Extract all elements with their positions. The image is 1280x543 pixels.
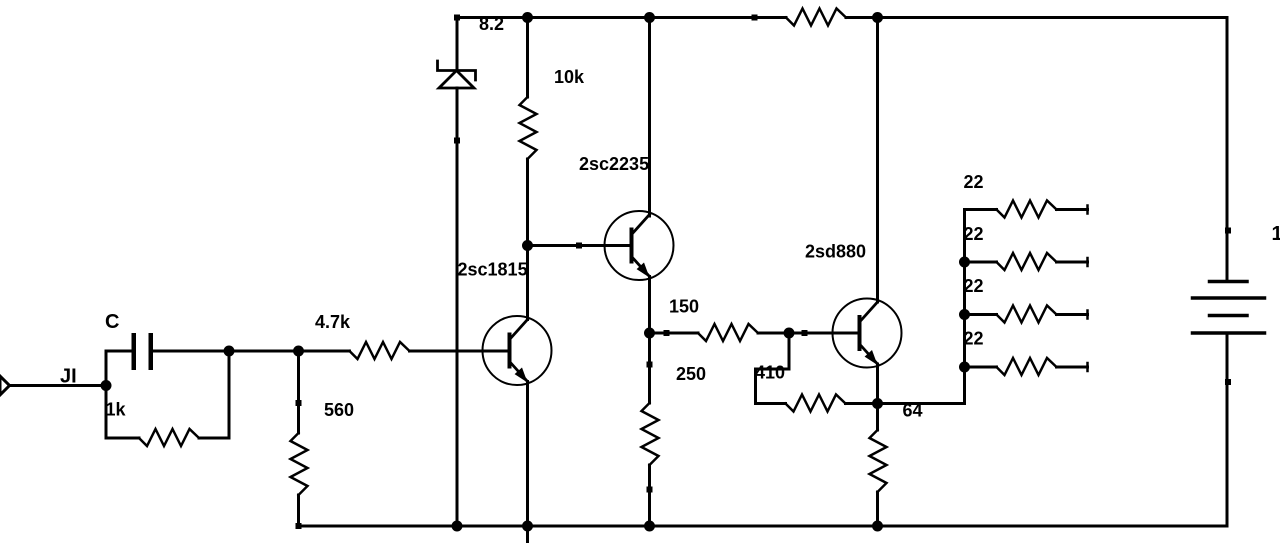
pin dot bottom rail left end (296, 523, 302, 529)
pin tick 22 row2 (1086, 258, 1089, 266)
pin dot zener bottom (454, 138, 460, 144)
node bottom rail 1815 emitter (522, 521, 533, 532)
pin dot battery bottom lead (1225, 379, 1231, 385)
wire 410 right lead to emitter node (846, 402, 878, 405)
wire 10k bottom lead (526, 159, 529, 246)
wire 22 row2 right lead (1057, 261, 1088, 264)
capacitor C plates (132, 333, 154, 370)
wire cap node to 4.7k node (229, 350, 299, 353)
wire 560 branch down (297, 351, 300, 433)
pin dot 2235 base wire (576, 243, 582, 249)
wire 4.7k left lead (299, 350, 350, 353)
wire 150 left lead (650, 332, 699, 335)
resistor 560 (291, 433, 308, 495)
wire J1 input lead (10, 384, 107, 387)
svg-text:10k: 10k (554, 67, 585, 87)
svg-text:22: 22 (964, 224, 984, 244)
wire battery bottom drop (1226, 333, 1229, 526)
wire 250 branch down (648, 333, 651, 403)
svg-text:560: 560 (324, 400, 354, 420)
wire 22 row1 right lead (1057, 208, 1088, 211)
pin dot top rail mid (752, 15, 758, 21)
node 880 emitter / 64 / bus (872, 398, 883, 409)
wire 64 resistor top lead (876, 404, 879, 431)
wire 10k top lead (526, 18, 529, 98)
svg-text:150: 150 (669, 297, 699, 317)
wire 22 row4 left lead (965, 366, 997, 369)
wire 410 loop from base node (756, 333, 790, 404)
wire 1k loop up (228, 351, 231, 438)
wire 22 row3 right lead (1057, 313, 1088, 316)
resistor 64 (870, 430, 887, 492)
zener diode D1 8.2V (438, 61, 476, 88)
pin dot 880 base wire (802, 330, 808, 336)
wire 2sd880 emitter vertical (876, 364, 879, 404)
svg-text:22: 22 (964, 276, 984, 296)
node 2235 emitter / 150 / 250 (644, 328, 655, 339)
wire 2sc2235 emitter vertical (648, 277, 651, 334)
wire cap branch up (105, 351, 108, 386)
resistor 150 (698, 324, 758, 341)
battery B1 plates (1193, 282, 1265, 334)
node 4.7k/560 (293, 346, 304, 357)
wire cap right lead (153, 350, 229, 353)
wire 22 bus vertical (963, 210, 966, 404)
wire top rail left segment (457, 16, 786, 19)
node 880 base / 410 (784, 328, 795, 339)
node 10k bottom / 1815 collector (522, 240, 533, 251)
node bottom rail zener (452, 521, 463, 532)
node bottom rail 64 (872, 521, 883, 532)
node bus row3 (959, 309, 970, 320)
node bus row4 (959, 362, 970, 373)
wire 2sc1815 emitter vertical (526, 382, 529, 527)
wire 560 bottom lead (297, 495, 300, 526)
wire 22 row2 left lead (965, 261, 997, 264)
transistor 2sc1815 (483, 316, 552, 385)
wire 2sd880 collector vertical (876, 18, 879, 303)
wire zener top lead (456, 18, 459, 71)
connector J1 triangle (0, 376, 10, 395)
wire 1k right lead (199, 437, 229, 440)
wire 150 right lead (758, 332, 789, 335)
node top rail 880 collector (872, 12, 883, 23)
svg-text:250: 250 (676, 364, 706, 384)
wire cap left lead (106, 350, 132, 353)
svg-text:1: 1 (1272, 223, 1280, 245)
wire 2sc2235 base wire (528, 244, 632, 247)
wire 250 bottom lead (648, 465, 651, 526)
pin dot battery top lead (1225, 228, 1231, 234)
wire 1k branch down (105, 386, 108, 439)
resistor 22 third (997, 306, 1057, 323)
pin tick 22 row4 (1086, 363, 1089, 371)
node J1 junction (101, 380, 112, 391)
svg-text:22: 22 (964, 329, 984, 349)
pin dot 250 top lead (647, 362, 653, 368)
svg-text:22: 22 (964, 172, 984, 192)
resistor 22 fourth (997, 358, 1057, 375)
wire 4.7k to 2sc1815 base (410, 350, 510, 353)
node bus row2 (959, 257, 970, 268)
node top rail 2235 collector (644, 12, 655, 23)
transistor 2sc2235 (605, 211, 674, 280)
wire 2sd880 base wire (789, 332, 860, 335)
wire 22 row3 left lead (965, 313, 997, 316)
resistor 410 (786, 395, 846, 412)
wire 64 bottom lead (876, 492, 879, 526)
pin tick 22 row1 (1086, 206, 1089, 214)
resistor top (collector feed) (786, 9, 846, 26)
node bottom rail 250 (644, 521, 655, 532)
resistor 22 second (997, 253, 1057, 270)
wire 2sc1815 collector vertical (526, 246, 529, 320)
svg-text:410: 410 (755, 363, 785, 383)
svg-text:4.7k: 4.7k (315, 312, 351, 332)
wire zener bottom lead to rail (456, 88, 459, 526)
wire right drop to battery (1226, 18, 1229, 282)
svg-text:2sc2235: 2sc2235 (579, 154, 649, 174)
wire emitter node to 22 bus (878, 402, 965, 405)
wire 22 row1 left lead (965, 208, 997, 211)
svg-text:1k: 1k (106, 400, 127, 420)
wire 22 row4 right lead (1057, 366, 1088, 369)
svg-text:2sd880: 2sd880 (805, 242, 866, 262)
pin dot top rail left end (454, 15, 460, 21)
svg-text:C: C (105, 311, 119, 333)
wire bottom rail (299, 525, 1228, 528)
resistor 22 first (997, 201, 1057, 218)
wire 1k left lead (106, 437, 139, 440)
pin dot 560 top lead (296, 400, 302, 406)
resistor 4.7k (350, 342, 410, 359)
resistor 10k (520, 97, 537, 159)
transistor 2sd880 (833, 299, 902, 368)
wire top rail right segment (846, 16, 1227, 19)
wire ground stub below rail (526, 526, 529, 543)
wire 2sc2235 collector vertical (648, 18, 651, 217)
pin dot 250 bottom lead (647, 487, 653, 493)
resistor 1k (139, 429, 199, 446)
node cap/1k right (224, 346, 235, 357)
pin tick 22 row3 (1086, 311, 1089, 319)
node top rail 10k (522, 12, 533, 23)
resistor 250 (642, 403, 659, 465)
svg-text:2sc1815: 2sc1815 (458, 260, 528, 280)
pin dot 150 left lead (664, 330, 670, 336)
